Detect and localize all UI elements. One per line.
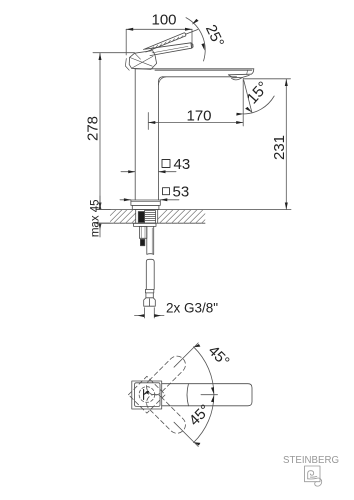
svg-text:15°: 15° [244, 79, 272, 108]
dimension 170 [148, 113, 243, 130]
G3/8 connector nut [144, 298, 156, 306]
deck with hatching [96, 210, 291, 224]
svg-text:53: 53 [173, 184, 190, 201]
45 degree arc upper [194, 347, 214, 395]
dimension square53 [120, 188, 179, 200]
extension line upper 45 [174, 343, 198, 367]
svg-text:2x G3/8": 2x G3/8" [166, 301, 218, 316]
washer [134, 223, 157, 226]
dimension square43 [121, 160, 176, 172]
handle head [125, 51, 156, 71]
spout arm + body column [135, 69, 254, 200]
svg-text:278: 278 [84, 116, 101, 141]
aerator at spout tip [228, 70, 251, 80]
svg-text:max 45: max 45 [90, 199, 102, 237]
shank under deck [136, 210, 158, 224]
svg-text:43: 43 [174, 156, 191, 173]
top view body square [132, 381, 162, 409]
lever rest (solid) [145, 43, 193, 56]
flow marker glyph [144, 390, 149, 400]
centerline at spout [201, 394, 218, 396]
hose upper part [147, 226, 154, 254]
top view spout [162, 384, 252, 406]
svg-text:100: 100 [151, 12, 176, 29]
mounting sleeve with black stud tip [139, 226, 146, 245]
base plate [131, 200, 160, 210]
dimension 100 [126, 29, 192, 55]
lever raised (phantom, hatched) [144, 30, 198, 53]
phantom lever up 45 (dashed) [143, 353, 189, 399]
45 degree arc lower [194, 395, 214, 443]
dimension 278 [93, 53, 135, 210]
cartridge dashed circle [139, 387, 155, 403]
svg-text:231: 231 [271, 135, 288, 160]
hose lower part [145, 259, 154, 298]
outlet vertical reference [242, 79, 244, 127]
svg-text:45°: 45° [205, 342, 233, 370]
svg-text:STEINBERG: STEINBERG [283, 455, 339, 466]
15 degree arc [243, 96, 274, 114]
phantom body square rotated 45 (dashed diamond) [129, 376, 166, 413]
dimension max 45 [99, 203, 102, 210]
phantom lever down 45 (dashed) [143, 391, 189, 437]
svg-text:170: 170 [186, 107, 211, 124]
25 degree arc [186, 18, 205, 61]
STEINBERG emblem [305, 466, 322, 486]
dimension 2x G3/8 [135, 308, 165, 318]
svg-text:25°: 25° [202, 22, 227, 50]
dimension 231 [244, 79, 291, 210]
extension line lower 45 [174, 422, 198, 446]
15 degree slant line [244, 81, 252, 113]
